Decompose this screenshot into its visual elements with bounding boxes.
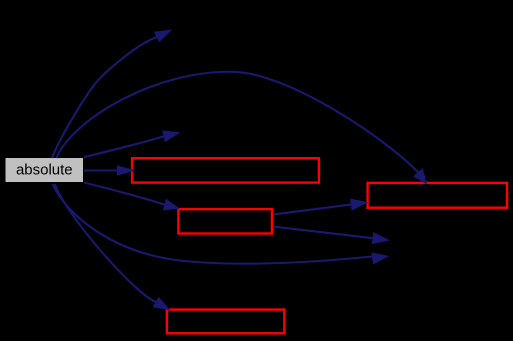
node box3 (368, 183, 507, 208)
wire E3 (84, 131, 179, 157)
wire E1 (52, 30, 171, 158)
node box4 (167, 310, 284, 334)
wire B2 (273, 227, 389, 244)
node box2 (178, 209, 272, 233)
wire E2 (56, 72, 426, 184)
wire E6 (53, 184, 389, 264)
svg-text:absolute: absolute (16, 162, 73, 179)
wire E4 (84, 166, 134, 175)
node box1 (132, 158, 319, 182)
wire B1 (273, 199, 367, 215)
node absolute (6, 158, 84, 182)
wire E5 (84, 183, 179, 210)
wire E7 (55, 184, 169, 310)
